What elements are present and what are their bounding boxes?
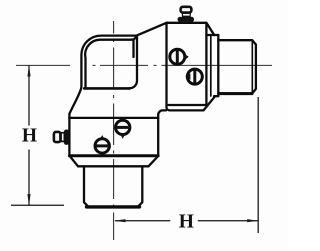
svg-text:H: H xyxy=(22,125,37,146)
svg-text:H: H xyxy=(179,212,194,233)
